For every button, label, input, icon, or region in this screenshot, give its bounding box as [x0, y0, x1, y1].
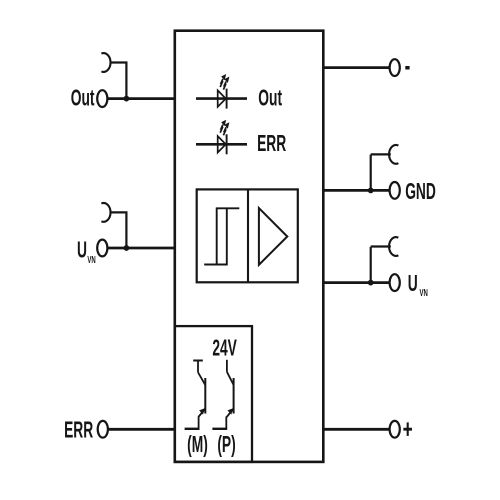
transistor Q1 output stub: [185, 428, 200, 430]
wire minus terminal: [322, 66, 390, 69]
terminal circle UVN-left: [97, 240, 107, 257]
terminal circle ERR: [98, 421, 108, 438]
LED D1 line: [196, 97, 247, 100]
label Out (left terminal): [71, 86, 95, 111]
transistor Q1 stem: [197, 361, 199, 373]
LED D1 arrow 2: [223, 77, 229, 90]
svg-text:(P): (P): [217, 432, 235, 457]
main module block: [175, 31, 323, 462]
hook contact above UVN-right: [389, 237, 398, 256]
wire UVN-right hook elbow horizontal: [371, 245, 391, 247]
label (P) plus-switching: [217, 432, 235, 457]
LED D1 arrow 1: [220, 74, 226, 87]
wire Out hook elbow vertical: [125, 63, 127, 100]
wire GND hook elbow vertical: [370, 155, 372, 191]
svg-text:U: U: [408, 271, 418, 296]
junction dot on Out wire: [124, 96, 130, 102]
label GND (right terminal): [405, 179, 436, 204]
function block box U1: [197, 189, 298, 282]
LED D2 line: [196, 143, 247, 146]
wire ERR terminal to block: [107, 428, 177, 431]
transistor Q2 emitter diagonal: [227, 409, 234, 418]
terminal circle minus: [390, 59, 400, 76]
svg-text:Out: Out: [71, 86, 95, 111]
wire UVN-left hook elbow horizontal: [110, 211, 128, 213]
wire UVN-right hook elbow vertical: [370, 247, 372, 283]
label Out (LED D1): [258, 86, 282, 111]
terminal circle plus: [390, 421, 400, 438]
svg-text:VN: VN: [420, 287, 428, 298]
svg-text:ERR: ERR: [64, 418, 93, 443]
wire Out terminal to block: [106, 97, 176, 100]
transistor Q2 (P) stem: [226, 360, 228, 372]
wire UVN-right terminal: [322, 281, 390, 284]
svg-text:ERR: ERR: [257, 132, 286, 157]
LED D2 cathode bar: [226, 134, 228, 154]
label UVN (left terminal): [77, 238, 87, 263]
terminal circle Out: [97, 90, 107, 107]
junction dot on UVN-right wire: [368, 280, 374, 286]
LED D1 diode triangle: [218, 90, 226, 106]
LED D2 arrow 1: [220, 120, 226, 133]
hook contact above UVN-left: [101, 203, 110, 222]
label UVN (right terminal): [408, 271, 418, 296]
junction dot on UVN-left wire: [124, 245, 130, 251]
plus symbol: [403, 428, 412, 431]
svg-text:Out: Out: [258, 86, 282, 111]
terminal circle GND: [390, 182, 400, 199]
transistor Q2 output stub: [212, 428, 227, 430]
transistor Q2 emitter vertical: [225, 417, 227, 429]
wire plus terminal: [322, 428, 389, 431]
label ERR (left terminal): [64, 418, 93, 443]
transistor Q2 collector diagonal: [227, 372, 234, 385]
schmitt trigger symbol: [204, 208, 239, 264]
svg-text:GND: GND: [405, 179, 436, 204]
minus symbol: [405, 66, 409, 70]
transistor Q1 base bar: [204, 378, 206, 414]
svg-text:(M): (M): [187, 432, 208, 457]
transistor Q1 (M) T-bar: [193, 360, 203, 362]
wire UVN-left terminal to block: [106, 247, 176, 250]
transistor Q2 emitter arrow: [228, 408, 234, 414]
label (M) minus-switching: [187, 432, 208, 457]
terminal circle UVN-right: [390, 274, 400, 291]
junction dot on GND wire: [368, 188, 374, 194]
label ERR (LED D2): [257, 132, 286, 157]
transistor Q1 emitter diagonal: [198, 409, 205, 418]
function block divider: [247, 189, 249, 282]
svg-text:VN: VN: [87, 255, 95, 266]
svg-text:U: U: [77, 238, 87, 263]
LED D2 diode triangle: [218, 136, 226, 152]
svg-text:24V: 24V: [212, 336, 237, 361]
LED D1 cathode bar: [226, 89, 228, 109]
wire GND terminal: [322, 189, 390, 192]
transistor Q2 base bar: [233, 378, 235, 414]
transistor Q1 emitter arrow: [199, 408, 205, 414]
LED D2 arrow 2: [223, 122, 229, 135]
wire Out hook elbow horizontal: [110, 61, 128, 63]
transistor Q1 collector diagonal: [198, 372, 205, 385]
wire GND hook elbow horizontal: [371, 153, 391, 155]
amplifier triangle: [259, 208, 287, 265]
hook contact above Out: [101, 53, 110, 72]
sub-block 24V output stage: [175, 326, 252, 462]
transistor Q1 emitter vertical: [198, 417, 200, 429]
hook contact above GND: [389, 145, 398, 164]
wire UVN-left hook elbow vertical: [125, 212, 127, 248]
label 24V supply: [212, 336, 237, 361]
